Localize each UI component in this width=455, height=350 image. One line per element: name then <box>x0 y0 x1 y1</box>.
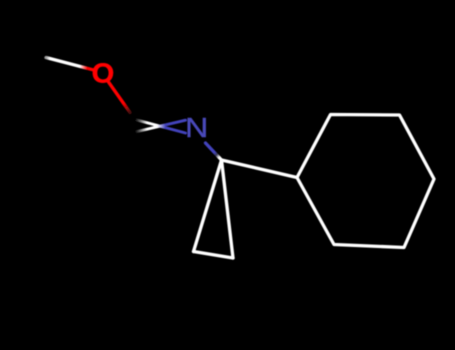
cyclopropane edge C1-B <box>222 160 234 258</box>
double bond C=N crossed line 1 (dark fade-in, white to blue) <box>135 120 186 134</box>
cyclopropane edge C1-A <box>194 160 222 252</box>
bond N-C1 (nitrogen to cyclopropane carbon, blue fading to white) <box>206 143 222 160</box>
bond CH3-O (methyl to oxygen, white fading to red) <box>46 58 93 70</box>
svg-text:N: N <box>185 113 208 144</box>
bond O-C (oxygen to imine carbon, red fading dark toward carbon) <box>109 82 131 113</box>
cyclohexane ring (hexagon V1-V2-V3-V4-V5-V6) <box>297 115 434 248</box>
cyclopropane edge A-B <box>194 252 234 259</box>
bond C1-ring (from cyclopropane C1 to hexagon vertex V1) <box>222 160 298 178</box>
double bond C=N crossed line 2 (dark fade-in, white to blue) <box>135 120 186 132</box>
